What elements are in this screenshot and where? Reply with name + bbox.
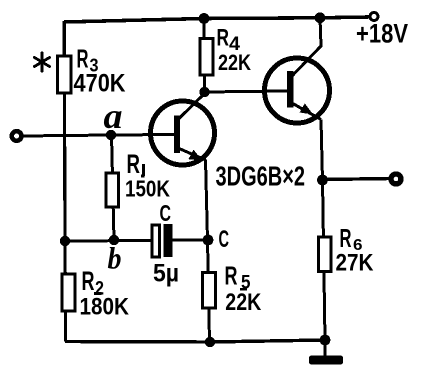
wire input to base Q1 xyxy=(21,135,175,137)
label R1 xyxy=(127,149,146,179)
svg-text:R: R xyxy=(127,149,141,179)
svg-text:22K: 22K xyxy=(218,50,251,75)
svg-text:5µ: 5µ xyxy=(153,260,179,288)
resistor R1 xyxy=(106,173,119,207)
label 22K R5 accent mark xyxy=(240,288,247,291)
svg-text:R: R xyxy=(217,25,230,52)
node a xyxy=(106,130,116,140)
terminal input xyxy=(12,131,22,141)
svg-text:R: R xyxy=(82,266,95,296)
label 150K accent mark xyxy=(141,175,145,178)
node R4 bottom xyxy=(199,87,209,97)
resistor R2 xyxy=(62,274,75,311)
wire bias row right xyxy=(173,239,205,242)
ground xyxy=(309,340,343,365)
wire output xyxy=(323,179,391,180)
svg-text:+18V: +18V xyxy=(356,19,408,49)
wire R1 branch xyxy=(112,135,115,240)
svg-text:b: b xyxy=(108,241,122,276)
wire top rail xyxy=(64,17,369,22)
wire bottom rail xyxy=(65,340,325,342)
resistor R5 xyxy=(203,273,216,309)
svg-text:C: C xyxy=(219,226,230,253)
svg-text:27K: 27K xyxy=(336,250,374,277)
node top right xyxy=(315,12,326,23)
svg-text:a: a xyxy=(104,96,123,136)
label 180K accent mark xyxy=(94,292,102,295)
label R6 xyxy=(340,225,363,254)
node R4 top xyxy=(199,13,210,24)
capacitor C xyxy=(152,224,173,257)
svg-text:150K: 150K xyxy=(125,176,170,202)
svg-text:22K: 22K xyxy=(225,289,262,316)
wire bias row left xyxy=(65,239,152,243)
svg-text:R: R xyxy=(225,263,238,291)
label R3 xyxy=(77,44,99,76)
label R2 xyxy=(82,266,105,300)
label R4 xyxy=(217,25,241,56)
wire emitter Q1 to node C and R5 xyxy=(206,160,210,343)
wire R4 branch xyxy=(203,19,207,93)
node bias divider xyxy=(60,236,70,246)
transistor Q2 xyxy=(265,46,330,124)
wire collector Q2 vertical xyxy=(320,18,321,46)
node C xyxy=(203,235,214,246)
wire base Q2 xyxy=(205,91,288,92)
resistor R6 xyxy=(319,237,332,272)
wire left vertical xyxy=(64,21,65,342)
transistor Q1 xyxy=(151,93,215,166)
asterisk xyxy=(35,53,50,71)
terminal +18V xyxy=(370,13,378,21)
svg-text:180K: 180K xyxy=(80,294,130,321)
svg-text:470K: 470K xyxy=(74,70,126,98)
wire emitter Q2 chain to ground xyxy=(321,120,325,341)
terminal output xyxy=(391,174,401,184)
svg-text:3DG6B×2: 3DG6B×2 xyxy=(216,161,306,192)
resistor R4 xyxy=(200,39,213,76)
resistor R3 xyxy=(58,56,72,93)
node bottom R5 xyxy=(205,337,215,347)
node ground junction xyxy=(320,335,331,346)
node output xyxy=(317,175,328,186)
label R5 xyxy=(225,263,251,294)
svg-text:C: C xyxy=(160,200,172,226)
node b xyxy=(109,235,119,245)
